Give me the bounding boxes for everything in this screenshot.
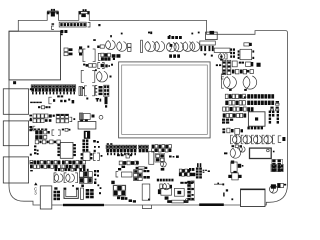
dashes right of pin grid — [203, 170, 210, 173]
IC footprint row3 — [81, 71, 95, 83]
dark pads right of grid B — [143, 170, 149, 179]
diode D near edge — [244, 43, 252, 46]
pad array row 1 — [225, 94, 274, 98]
IC U6 area — [158, 188, 184, 199]
IC footprint U2 — [83, 46, 95, 62]
switch SW1 on top tab — [47, 9, 58, 17]
IC footprint row4 — [84, 86, 94, 100]
pad rows bottom-left row1 — [30, 160, 60, 164]
board outline — [9, 12, 288, 205]
header J1 (top, below edge) — [59, 22, 86, 27]
dash marks y182 — [180, 182, 193, 184]
passives row — [222, 128, 243, 134]
capacitor C10 — [117, 42, 127, 52]
long header J7 — [31, 85, 75, 92]
pads below header — [60, 30, 67, 33]
tall rect bottom center — [142, 184, 150, 200]
dot above row3 — [95, 69, 97, 71]
pad grid 3x2 — [98, 53, 120, 61]
vertical bars + rect x79 y113 — [80, 113, 95, 120]
small marks bottom right — [223, 189, 233, 200]
dark mark x150 — [150, 32, 152, 35]
pad grid A bottom center — [113, 185, 126, 196]
header J2 below LCD — [106, 143, 137, 155]
connector P2 (left edge) — [3, 121, 28, 146]
small circle x101 y117 — [99, 115, 103, 119]
capacitor left of J1 — [52, 23, 55, 29]
marks row 3 right — [270, 107, 278, 111]
pads x29 y126 — [29, 126, 35, 131]
capacitor bank row (4 electrolytics) — [231, 135, 275, 144]
pads row below A2 — [119, 161, 139, 168]
power jack J5 (bottom right) — [241, 189, 266, 207]
capacitor C12 — [183, 42, 200, 52]
marks below grid A — [117, 196, 150, 202]
clamp component — [278, 136, 285, 143]
tall component — [149, 151, 154, 164]
pads row y168 — [55, 168, 89, 171]
ml marks — [169, 156, 179, 158]
power connector on edge — [206, 31, 218, 40]
pad array row 3 — [223, 107, 254, 111]
pads right of LCD corner — [216, 56, 223, 67]
bar right of T1 — [81, 188, 84, 199]
pad grid 3x2 y171 — [79, 172, 92, 184]
wide rect right of power pads — [214, 48, 230, 52]
sot23 Q1 — [222, 60, 226, 74]
pad col x98 — [99, 86, 103, 95]
winding col x95 — [95, 86, 97, 96]
pad grid 2x3 x104 — [104, 85, 109, 97]
capacitor small — [219, 53, 228, 59]
fiducial near LCD corner — [113, 58, 115, 60]
pad grid 2x2 below LCD — [155, 153, 165, 162]
mount bracket below bottom edge — [143, 205, 152, 209]
pad grid x82 y139 — [82, 139, 88, 151]
bracket pair right of U8 — [93, 153, 102, 160]
transformer T1 (U shape) — [64, 188, 79, 199]
C3 label and arrow — [34, 182, 38, 195]
resistor beside LED — [278, 183, 287, 187]
pad row y114 — [29, 114, 54, 118]
transistor Q5 (3-pad) — [228, 171, 241, 180]
connector J4 (bottom edge vertical) — [40, 186, 52, 209]
QFP bottom pads — [247, 127, 263, 130]
capacitor C11 with bars — [141, 40, 165, 52]
dot right of U5 — [273, 151, 275, 153]
resistor bar — [136, 167, 148, 169]
fiducial dot — [61, 33, 63, 35]
pad array row 2 — [225, 101, 274, 105]
bracket sq dot row2 — [98, 63, 113, 69]
dark bar bottom edge — [63, 204, 104, 206]
pad grid x86 y189 — [86, 189, 94, 198]
pad col x94 y170 — [94, 170, 99, 184]
shield can (large rectangle, top-left) — [9, 31, 61, 80]
pad block right rows — [179, 169, 195, 176]
pads under power connector — [200, 41, 216, 51]
bracket pair C3 — [52, 130, 60, 135]
vertical bars x79 y86 — [79, 87, 85, 96]
cap with bar — [160, 183, 172, 190]
pin columns right of QFP — [269, 111, 279, 124]
bracket below header — [49, 97, 55, 104]
bracket on lcd edge — [221, 74, 223, 79]
QFP U4 — [248, 112, 265, 126]
test point dot near J1 — [98, 24, 100, 26]
LCD module outline (outer) — [119, 62, 211, 138]
capacitor pair C5 C6 — [64, 48, 73, 56]
capacitor C30 — [224, 148, 241, 158]
pads left of SOIC — [34, 145, 39, 154]
component x55 y188 grid — [54, 187, 61, 200]
connector P3 (left edge) — [3, 157, 28, 183]
diode with arrow — [97, 45, 104, 48]
IC U3 — [238, 49, 255, 59]
pad columns — [230, 48, 235, 57]
pad cluster x35 y130 — [35, 130, 50, 139]
small pad — [93, 39, 96, 41]
pad grid B — [134, 170, 143, 181]
polarity triangle — [203, 54, 206, 57]
rc pair — [232, 70, 247, 74]
dark square y185 — [72, 185, 84, 188]
LED D5 — [270, 184, 278, 193]
dash row — [157, 179, 174, 182]
cap chain row2 — [83, 64, 96, 68]
switch SW2 on top tab — [79, 9, 89, 17]
power inductor with pads — [167, 36, 184, 58]
SOIC U7 — [57, 143, 76, 159]
pin strip vertical — [187, 181, 194, 201]
pads left of array — [222, 119, 233, 124]
edge connector dark bar — [199, 203, 224, 206]
bracket right of J1 — [88, 22, 90, 27]
pin stubs below header — [32, 92, 75, 95]
pad pairs 2x2 A — [271, 164, 277, 171]
connector P1 (left edge) — [3, 89, 28, 115]
test points — [229, 89, 247, 98]
pads below C40 — [161, 168, 165, 171]
resistor R5 (vertical) — [79, 46, 82, 55]
pad pairs 2x2 B — [278, 164, 284, 171]
pads A2 group — [117, 154, 132, 158]
small marks row 2 right — [276, 101, 279, 105]
fiducial dots row — [121, 32, 200, 37]
crystal Y1 — [78, 119, 96, 129]
pin grid 2x4 — [190, 163, 202, 178]
pad row y119 — [29, 119, 51, 123]
C bracket with rect — [116, 172, 132, 178]
pads below header — [57, 95, 74, 103]
vertical rect x82 y150 — [0, 0, 1, 1]
tick above C bracket — [118, 168, 121, 170]
pads — [246, 70, 253, 74]
inductor row3 — [97, 71, 112, 82]
regulator with tab — [231, 161, 244, 173]
square row y140 — [35, 140, 60, 144]
capacitor C21 — [243, 76, 257, 89]
inductor L2 — [106, 35, 116, 50]
dark pad x111 — [111, 181, 114, 184]
cap pads — [128, 43, 131, 51]
marks near strip — [192, 194, 194, 196]
silk line bottom right — [214, 183, 224, 186]
pad rows bottom-left row2 — [30, 165, 60, 169]
SOT U8 — [81, 152, 93, 161]
pad array row 4 — [223, 113, 247, 117]
diode D2 — [246, 62, 261, 67]
pad column beside P1 — [30, 88, 42, 103]
pad rows bottom-left row2b — [62, 165, 86, 169]
inductor pair bottom-left — [54, 173, 78, 183]
T marks below — [96, 98, 102, 102]
capacitor C20 — [222, 76, 237, 88]
bar with dark ends — [167, 199, 188, 203]
capacitor C40 — [160, 161, 166, 167]
LCD module outline (inner) — [122, 65, 208, 134]
resistor R10 — [232, 61, 244, 67]
header J3 below LCD — [139, 145, 149, 152]
dark component x84 y131 — [84, 131, 90, 139]
sot23 Q2 — [227, 60, 231, 74]
IC U5 (large, bottom right) — [250, 148, 272, 158]
sparse pads x93 y140 — [93, 140, 100, 152]
dark vbar x104 — [105, 97, 108, 108]
small bits x62 y128 — [62, 128, 71, 131]
pad column beside P2 — [30, 118, 47, 130]
pad below shield — [13, 81, 16, 84]
pad rows bottom-left row1b — [62, 160, 86, 164]
test point dot — [211, 55, 213, 57]
pad grid 2x4 — [272, 159, 283, 171]
small pads row — [232, 145, 243, 148]
dots x97 y184 — [97, 184, 101, 194]
pad marks beside P3 — [30, 154, 33, 172]
pads right of J3 — [152, 145, 172, 152]
partial circle — [240, 147, 246, 152]
three caps x56 — [56, 114, 68, 123]
small parts x38 y106 — [38, 106, 50, 109]
bracket x69 — [69, 117, 75, 121]
pads left of pin grid — [189, 168, 194, 171]
